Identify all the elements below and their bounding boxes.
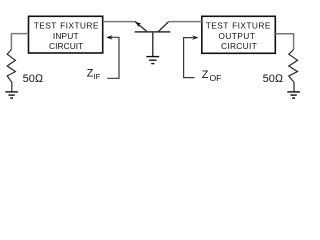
svg-text:50Ω: 50Ω: [23, 73, 44, 85]
svg-text:CIRCUIT: CIRCUIT: [49, 41, 83, 51]
svg-text:TEST FIXTURE: TEST FIXTURE: [34, 20, 99, 30]
svg-text:OUTPUT: OUTPUT: [218, 31, 255, 41]
svg-text:IF: IF: [94, 72, 101, 81]
svg-text:Z: Z: [202, 69, 209, 81]
svg-text:TEST FIXTURE: TEST FIXTURE: [206, 20, 271, 30]
svg-text:OF: OF: [210, 73, 222, 83]
svg-text:CIRCUIT: CIRCUIT: [221, 41, 257, 51]
svg-text:50Ω: 50Ω: [263, 73, 284, 85]
svg-text:INPUT: INPUT: [53, 31, 79, 41]
